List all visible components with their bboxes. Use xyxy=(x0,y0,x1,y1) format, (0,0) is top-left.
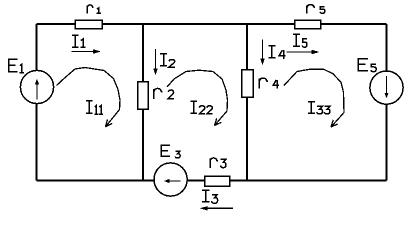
wire top segment right of r5 xyxy=(321,23,387,25)
label r2 xyxy=(154,88,174,99)
label r4 xyxy=(259,78,279,89)
wire middle-left upper xyxy=(142,24,144,82)
resistor r4 xyxy=(242,70,254,98)
current arrow I1 xyxy=(72,49,102,53)
current arrow I5 xyxy=(287,50,320,54)
source E3 xyxy=(154,163,187,196)
wire top segment left of r1 xyxy=(37,23,76,25)
wire right lower xyxy=(386,104,388,180)
mesh current arrow I11 xyxy=(57,68,121,127)
label I33 xyxy=(308,102,330,114)
resistor r2 xyxy=(138,82,149,110)
label r5 xyxy=(307,5,325,14)
wire top segment r1 to r5 xyxy=(102,23,295,25)
label I3 xyxy=(202,190,218,203)
current arrow I4 xyxy=(260,40,264,66)
label I5 xyxy=(293,34,307,47)
label I22 xyxy=(190,101,212,114)
source E5 xyxy=(370,71,403,104)
wire left lower xyxy=(36,104,38,181)
mesh current arrow I22 xyxy=(167,70,228,125)
wire bottom segment E3 to r3 xyxy=(187,180,205,182)
wire bottom segment right of r3 xyxy=(230,180,387,182)
resistor r5 xyxy=(295,20,321,29)
wire left upper xyxy=(36,24,38,71)
resistor r3 xyxy=(205,176,230,186)
label E1 xyxy=(9,59,24,73)
label E3 xyxy=(161,145,180,158)
wire middle-left lower xyxy=(142,109,144,181)
wire middle-right lower xyxy=(246,97,248,181)
mesh current arrow I33 xyxy=(284,69,344,127)
label r3 xyxy=(210,158,226,168)
label I1 xyxy=(72,35,86,47)
label I11 xyxy=(86,101,103,114)
label I2 xyxy=(160,54,175,67)
source E1 xyxy=(20,70,53,103)
current arrow I2 xyxy=(153,49,157,76)
wire middle-right upper xyxy=(246,24,248,70)
wire right upper xyxy=(386,24,388,71)
label I4 xyxy=(268,46,285,59)
label r1 xyxy=(87,5,101,13)
resistor r1 xyxy=(75,20,102,29)
wire bottom segment left of E3 xyxy=(37,180,155,182)
label E5 xyxy=(358,59,376,72)
current arrow I3 xyxy=(200,206,233,210)
